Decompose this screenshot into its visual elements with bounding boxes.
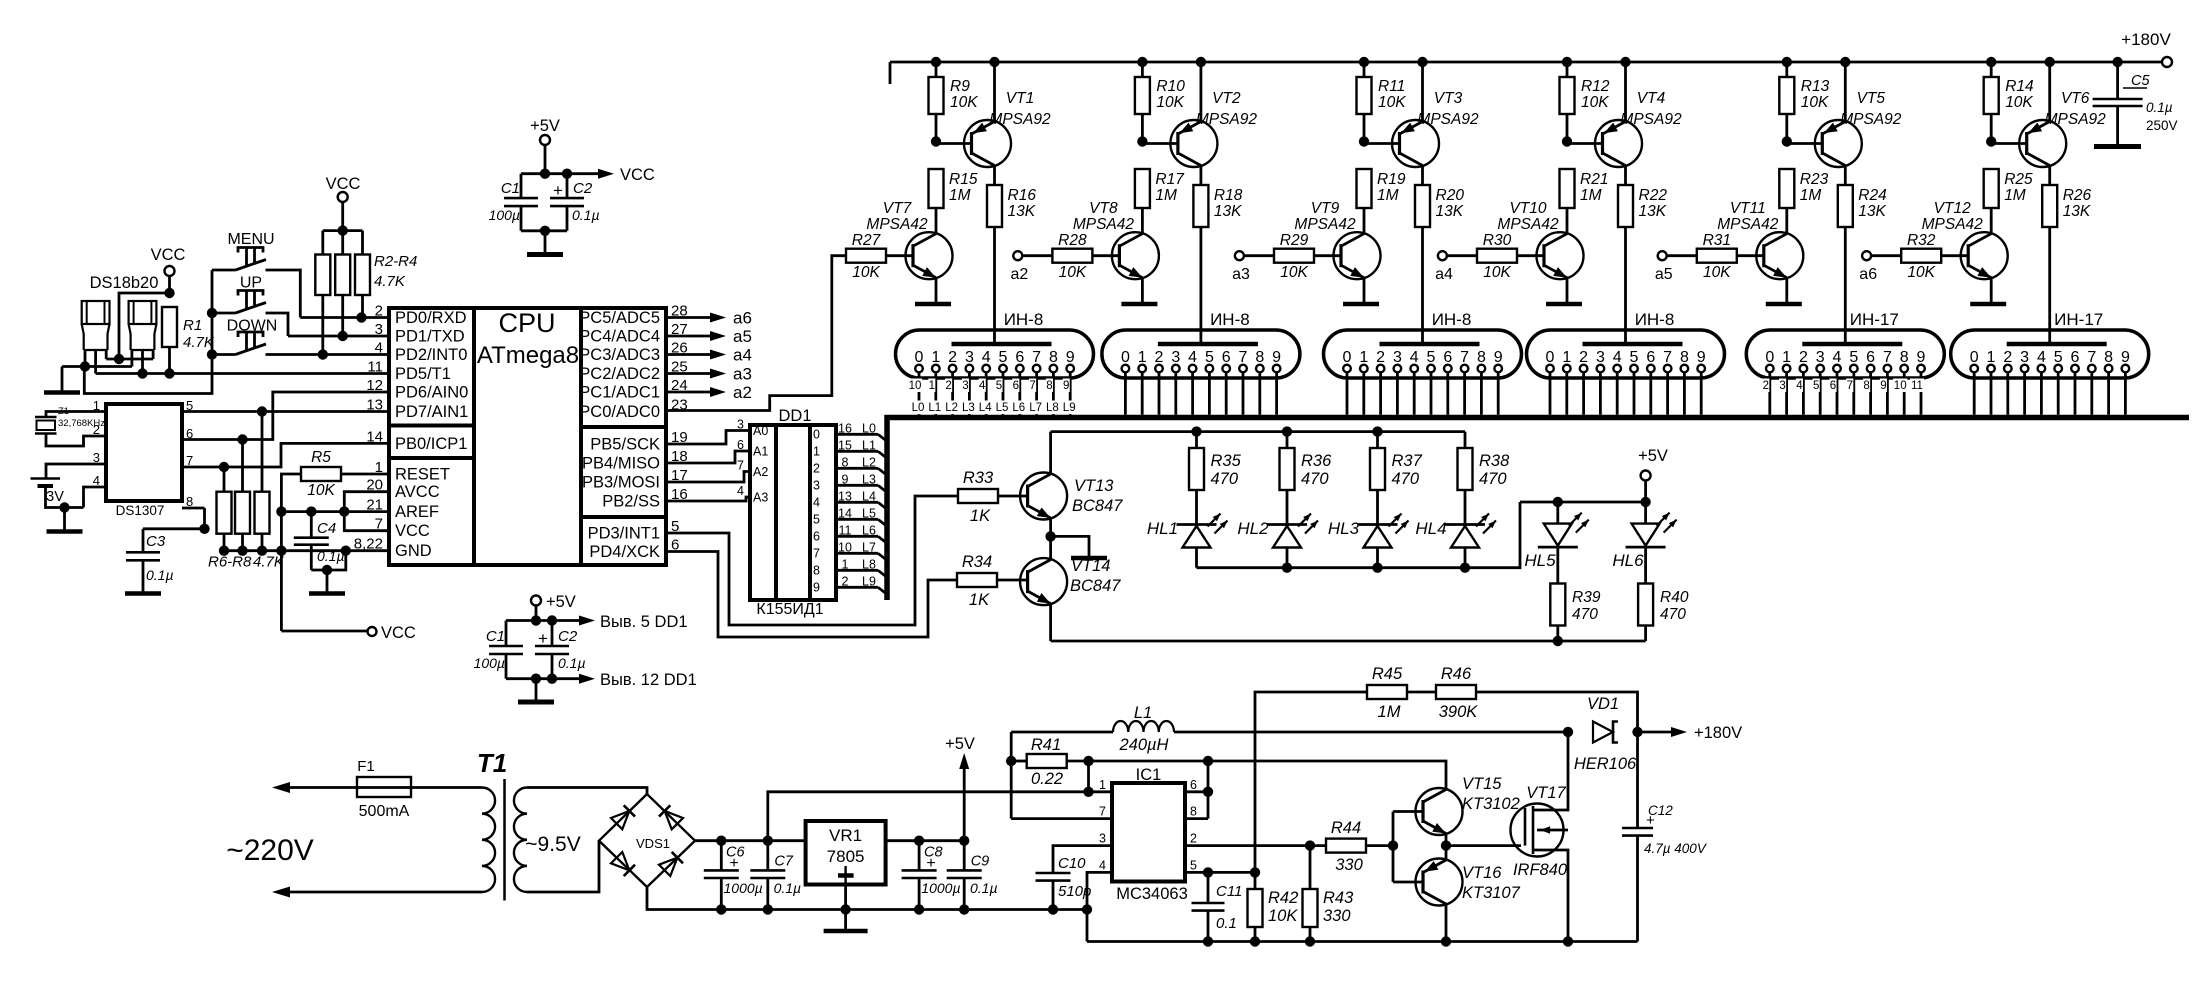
svg-text:ИН-8: ИН-8: [1210, 310, 1250, 329]
bus cathode wiring thick: [887, 418, 2189, 601]
svg-text:0.1: 0.1: [1216, 915, 1237, 932]
node feed R36: [1282, 426, 1292, 436]
svg-text:1M: 1M: [1800, 187, 1822, 204]
labels DS1307 pins: [93, 398, 193, 509]
svg-text:a6: a6: [1859, 266, 1877, 283]
svg-text:HL3: HL3: [1328, 519, 1360, 538]
wire PD1 row: [288, 331, 389, 341]
svg-text:R11: R11: [1378, 78, 1405, 95]
wire base rail VT15 VT16: [1388, 812, 1398, 883]
wire DS1307 pin6 to PD6: [182, 392, 389, 445]
svg-text:R44: R44: [1331, 819, 1361, 837]
svg-text:+: +: [1646, 812, 1655, 829]
svg-text:+: +: [729, 855, 738, 872]
wire VR1 gnd: [840, 885, 850, 930]
svg-text:1: 1: [929, 380, 935, 392]
svg-text:2: 2: [1155, 349, 1164, 366]
svg-text:A1: A1: [753, 445, 768, 459]
svg-text:CPU: CPU: [498, 308, 555, 338]
node base junction VT6: [1986, 136, 1996, 146]
resistor R44 330: [1326, 819, 1393, 874]
wire pin5 row: [1185, 867, 1260, 877]
ground C3: [125, 591, 161, 596]
svg-text:ИН-8: ИН-8: [1004, 310, 1044, 329]
svg-text:R20: R20: [1436, 187, 1465, 204]
svg-text:0: 0: [813, 427, 820, 441]
svg-text:L7: L7: [862, 540, 876, 554]
switch UP: [212, 275, 266, 314]
svg-text:VT4: VT4: [1637, 90, 1666, 107]
svg-text:ИН-17: ИН-17: [2054, 310, 2103, 329]
svg-text:VCC: VCC: [381, 624, 416, 642]
svg-text:0.1µ: 0.1µ: [146, 567, 174, 583]
wire base VT6: [1991, 142, 2027, 145]
svg-text:PC2/ADC2: PC2/ADC2: [579, 365, 660, 383]
svg-text:10K: 10K: [1059, 264, 1087, 281]
svg-text:A2: A2: [753, 465, 768, 479]
svg-text:7: 7: [2087, 349, 2096, 366]
svg-text:3: 3: [1393, 349, 1402, 366]
svg-text:5: 5: [1630, 349, 1639, 366]
wire PD3 to R33: [666, 496, 958, 625]
node VT13 emitter junction: [1045, 531, 1055, 541]
svg-text:4: 4: [1796, 380, 1803, 392]
svg-text:a6: a6: [733, 309, 752, 328]
svg-text:1M: 1M: [1377, 187, 1399, 204]
transformer T1: [477, 748, 581, 901]
svg-text:5: 5: [996, 380, 1002, 392]
svg-text:10K: 10K: [1703, 264, 1731, 281]
svg-text:5: 5: [813, 512, 820, 526]
svg-text:9: 9: [1066, 349, 1075, 366]
svg-text:PD4/XCK: PD4/XCK: [589, 543, 660, 561]
wire arrow Vyv12 DD1: [552, 671, 697, 689]
svg-text:5: 5: [999, 349, 1008, 366]
svg-text:MPSA92: MPSA92: [1196, 111, 1258, 128]
svg-text:1: 1: [1987, 349, 1996, 366]
svg-text:R29: R29: [1280, 232, 1309, 249]
svg-text:6: 6: [1013, 380, 1019, 392]
svg-text:10K: 10K: [950, 94, 978, 111]
svg-text:32,768KHz: 32,768KHz: [58, 418, 105, 429]
svg-text:R17: R17: [1155, 171, 1185, 188]
bridge rectifier VDS1: [599, 794, 695, 887]
svg-text:MPSA42: MPSA42: [1073, 216, 1135, 233]
wire output a2: [666, 383, 752, 402]
svg-text:1: 1: [1782, 349, 1791, 366]
resistor R36 470: [1280, 432, 1333, 525]
svg-text:DS1307: DS1307: [116, 503, 165, 518]
transistor VT17 IRF840: [1511, 732, 1569, 942]
svg-text:15: 15: [838, 438, 852, 452]
svg-text:KT3107: KT3107: [1462, 884, 1521, 902]
svg-text:3: 3: [1596, 349, 1605, 366]
terminal a2: [1011, 251, 1053, 283]
svg-text:9: 9: [1272, 349, 1281, 366]
ground upper +5V block: [527, 252, 563, 257]
svg-text:4: 4: [1833, 349, 1842, 366]
wire sensors GND line: [62, 361, 132, 391]
led HL5: [1524, 502, 1588, 584]
svg-text:KT3102: KT3102: [1462, 795, 1520, 813]
svg-text:3: 3: [2020, 349, 2029, 366]
wire buttons common to GND: [84, 270, 212, 394]
svg-text:13K: 13K: [1639, 203, 1667, 220]
svg-text:+5V: +5V: [945, 735, 975, 753]
node base junction VT4: [1562, 136, 1572, 146]
svg-text:PD5/T1: PD5/T1: [395, 365, 451, 383]
resistor R31 10K: [1697, 232, 1764, 281]
resistor R35 470: [1189, 432, 1242, 525]
resistor R23 1M: [1779, 169, 1828, 233]
svg-text:1M: 1M: [2004, 187, 2026, 204]
node base junction VT5: [1782, 136, 1792, 146]
labels IC1 pins: [1099, 778, 1197, 873]
svg-text:8: 8: [1046, 380, 1052, 392]
svg-text:К155ИД1: К155ИД1: [756, 601, 823, 618]
wire base VT5: [1787, 142, 1823, 145]
svg-text:7: 7: [1029, 380, 1035, 392]
svg-text:~220V: ~220V: [226, 834, 314, 867]
svg-text:4: 4: [979, 380, 986, 392]
battery 3V: [31, 479, 65, 506]
svg-text:1K: 1K: [970, 507, 991, 525]
svg-text:a5: a5: [1655, 266, 1673, 283]
svg-text:L2: L2: [945, 402, 958, 414]
svg-text:HL2: HL2: [1237, 519, 1269, 538]
ic DS1307 box: [106, 404, 182, 518]
svg-text:AVCC: AVCC: [395, 483, 440, 501]
svg-text:L1: L1: [862, 438, 876, 452]
svg-text:3: 3: [1099, 832, 1106, 846]
wire sensors VDD line: [106, 358, 153, 361]
wire L1 input vertical: [1006, 732, 1112, 819]
svg-text:6: 6: [1443, 349, 1452, 366]
svg-text:10K: 10K: [1280, 264, 1308, 281]
svg-text:6: 6: [1015, 349, 1024, 366]
svg-text:C2: C2: [558, 628, 578, 645]
svg-text:L0: L0: [862, 421, 876, 435]
svg-text:0: 0: [1343, 349, 1352, 366]
labels CPU right pins: [579, 303, 687, 562]
svg-text:PD2/INT0: PD2/INT0: [395, 346, 467, 364]
wire bottom ground rail: [1087, 936, 1638, 946]
svg-text:390K: 390K: [1439, 703, 1479, 721]
svg-text:C5: C5: [2131, 73, 2150, 89]
svg-text:1: 1: [1138, 349, 1147, 366]
resistor R39 470: [1550, 584, 1601, 642]
svg-text:C3: C3: [146, 533, 166, 550]
svg-text:VT16: VT16: [1462, 864, 1502, 882]
resistor R40 470: [1638, 584, 1689, 642]
resistor R4 4.7K: [355, 231, 370, 318]
svg-text:BC847: BC847: [1072, 497, 1123, 515]
svg-text:R18: R18: [1214, 187, 1243, 204]
svg-text:R32: R32: [1907, 232, 1936, 249]
svg-text:240µH: 240µH: [1119, 736, 1169, 754]
svg-text:1M: 1M: [1378, 703, 1401, 721]
svg-text:L6: L6: [1012, 402, 1025, 414]
svg-text:PC5/ADC5: PC5/ADC5: [579, 309, 660, 327]
svg-text:500mA: 500mA: [359, 803, 410, 820]
resistor R30 10K: [1477, 232, 1544, 281]
svg-text:100µ: 100µ: [474, 655, 505, 671]
svg-text:IC1: IC1: [1136, 766, 1162, 784]
terminal a4: [1435, 251, 1477, 283]
wire base VT3: [1364, 142, 1400, 145]
svg-text:PC0/ADC0: PC0/ADC0: [579, 403, 660, 421]
svg-text:0.22: 0.22: [1031, 770, 1063, 788]
svg-text:A3: A3: [753, 491, 768, 505]
svg-text:9: 9: [2121, 349, 2130, 366]
ic IC1 MC34063 box: [1112, 766, 1188, 903]
svg-text:PB5/SCK: PB5/SCK: [590, 436, 660, 454]
svg-text:MPSA42: MPSA42: [1294, 216, 1356, 233]
svg-text:L9: L9: [862, 574, 876, 588]
led HL6: [1612, 502, 1676, 584]
svg-text:MPSA42: MPSA42: [866, 216, 928, 233]
svg-text:PD3/INT1: PD3/INT1: [588, 525, 660, 543]
wire battery minus: [46, 486, 84, 530]
label DS18b20: [90, 274, 159, 292]
resistor R32 10K: [1901, 232, 1968, 281]
svg-text:1: 1: [931, 349, 940, 366]
transistor VT10 MPSA42: [1497, 200, 1583, 302]
svg-text:14: 14: [838, 506, 852, 520]
svg-text:VT13: VT13: [1074, 477, 1114, 495]
svg-text:3V: 3V: [46, 489, 64, 505]
svg-text:2: 2: [1579, 349, 1588, 366]
svg-text:L3: L3: [862, 472, 876, 486]
wire PB2 to A3: [666, 497, 750, 501]
svg-text:13K: 13K: [1436, 203, 1464, 220]
svg-text:a2: a2: [1011, 266, 1029, 283]
svg-text:VT15: VT15: [1462, 775, 1502, 793]
nixie tube ИН-8 #3: [1324, 310, 1522, 378]
svg-text:VT12: VT12: [1934, 200, 1971, 217]
svg-text:VT7: VT7: [883, 200, 913, 217]
transistor VT13 BC847: [1020, 432, 1123, 537]
svg-text:VT3: VT3: [1434, 90, 1463, 107]
svg-text:100µ: 100µ: [489, 207, 520, 223]
svg-text:7805: 7805: [827, 847, 865, 866]
svg-text:R5: R5: [311, 449, 331, 466]
svg-text:PB2/SS: PB2/SS: [602, 493, 660, 511]
svg-text:a4: a4: [1435, 266, 1453, 283]
svg-text:13: 13: [838, 489, 852, 503]
svg-text:ATmega8: ATmega8: [477, 342, 579, 369]
wire DS1307 pin5 to PD7: [182, 406, 389, 416]
svg-text:13K: 13K: [1858, 203, 1886, 220]
terminal +5V lower: [531, 593, 576, 621]
terminal VCC lower: [281, 624, 416, 642]
wire secondary top to bridge: [527, 788, 647, 795]
svg-text:8: 8: [1680, 349, 1689, 366]
node VCC junction R1: [164, 288, 174, 298]
wire R5 left vertical: [276, 474, 301, 631]
resistor R11 10K: [1357, 57, 1407, 141]
svg-text:6: 6: [2071, 349, 2080, 366]
wire DS1307 pin8 gnd: [182, 507, 205, 510]
node feed R37: [1372, 426, 1382, 436]
wire gate: [1446, 844, 1521, 847]
wire output a5: [666, 327, 752, 346]
ground VT13 emitter: [1051, 536, 1107, 558]
svg-text:PD1/TXD: PD1/TXD: [395, 328, 465, 346]
svg-text:L5: L5: [862, 506, 876, 520]
svg-text:ИН-8: ИН-8: [1635, 310, 1675, 329]
svg-text:a5: a5: [733, 327, 752, 346]
svg-text:10K: 10K: [1378, 94, 1406, 111]
transistor VT4 MPSA92: [1595, 57, 1682, 185]
node R41 right pin1 branch: [1083, 756, 1093, 797]
svg-text:R33: R33: [963, 469, 994, 487]
svg-text:3: 3: [813, 478, 820, 492]
wire DD1 output L8: [813, 557, 887, 577]
svg-text:3: 3: [962, 380, 968, 392]
wire PSU mid ground rail: [647, 887, 1092, 915]
svg-text:VR1: VR1: [829, 826, 862, 845]
svg-text:0: 0: [1765, 349, 1774, 366]
ground battery: [47, 529, 83, 534]
wire DD1 output L9: [813, 574, 887, 594]
svg-text:C1: C1: [501, 180, 520, 197]
svg-text:11: 11: [839, 523, 852, 537]
svg-text:250V: 250V: [2146, 118, 2178, 133]
svg-text:R40: R40: [1660, 589, 1689, 606]
transistor VT6 MPSA92: [2019, 57, 2106, 185]
wire DS1307 pin1 to crystal: [46, 412, 106, 418]
svg-text:13K: 13K: [1008, 203, 1036, 220]
svg-text:7: 7: [1239, 349, 1248, 366]
svg-text:10K: 10K: [307, 482, 335, 499]
capacitor C4 0.1u: [294, 512, 345, 570]
svg-text:C9: C9: [971, 854, 990, 870]
resistor R25 1M: [1984, 169, 2033, 233]
node C7 top: [763, 836, 773, 846]
wire arrow Vyv5 DD1: [552, 613, 688, 631]
switch DOWN: [212, 318, 277, 355]
led HL2: [1237, 514, 1318, 568]
resistor R3 4.7K: [335, 231, 350, 336]
svg-text:10K: 10K: [1581, 94, 1609, 111]
node +5V lower junction: [531, 615, 541, 625]
wire base VT2: [1142, 142, 1178, 145]
ground emitter VT11: [1766, 302, 1802, 307]
svg-text:10K: 10K: [1801, 94, 1829, 111]
svg-text:a3: a3: [733, 365, 752, 384]
wire pin2 row to R44: [1185, 844, 1326, 847]
svg-text:470: 470: [1660, 606, 1686, 623]
svg-text:9: 9: [813, 580, 820, 594]
svg-text:PB3/MOSI: PB3/MOSI: [582, 474, 660, 492]
svg-text:R43: R43: [1323, 889, 1354, 907]
svg-text:R14: R14: [2005, 78, 2034, 95]
wire AREF row: [281, 506, 389, 516]
svg-text:R30: R30: [1483, 232, 1512, 249]
terminal VCC above R1: [151, 246, 186, 293]
svg-text:C4: C4: [317, 520, 336, 537]
svg-text:1K: 1K: [969, 591, 990, 609]
wire GND row: [219, 546, 389, 556]
wire LED common bottom: [1197, 502, 1521, 573]
svg-text:L3: L3: [962, 402, 975, 414]
wire GND branch to C4 bottom: [311, 551, 346, 576]
transistor VT14 BC847: [1020, 536, 1121, 641]
svg-text:4: 4: [982, 349, 991, 366]
svg-text:VCC: VCC: [620, 166, 655, 184]
switch MENU: [212, 231, 275, 270]
resistor R46 390K: [1436, 665, 1638, 732]
svg-text:+: +: [926, 855, 935, 872]
svg-text:1M: 1M: [1580, 187, 1602, 204]
ground emitter VT12: [1970, 302, 2006, 307]
svg-text:0.1µ: 0.1µ: [317, 548, 345, 564]
ground emitter VT8: [1121, 302, 1157, 307]
svg-text:8: 8: [813, 563, 820, 577]
svg-text:9: 9: [1697, 349, 1706, 366]
svg-text:L8: L8: [1046, 402, 1059, 414]
svg-text:MPSA42: MPSA42: [1922, 216, 1984, 233]
svg-text:1: 1: [1562, 349, 1571, 366]
svg-text:R28: R28: [1058, 232, 1087, 249]
svg-text:0: 0: [1121, 349, 1130, 366]
wire C1 C2 bottom row upper: [521, 226, 567, 252]
ground lower +5V block: [518, 679, 554, 702]
terminal a3: [1232, 251, 1274, 283]
node feed R35: [1191, 426, 1201, 436]
svg-text:R39: R39: [1572, 589, 1601, 606]
svg-text:VT17: VT17: [1526, 784, 1566, 802]
wire mains bottom: [272, 887, 482, 898]
inductor L1 240uH: [1011, 704, 1568, 754]
svg-text:10: 10: [909, 380, 922, 392]
svg-text:VT10: VT10: [1509, 200, 1546, 217]
wire DS1307 pin4: [84, 487, 107, 508]
svg-text:2: 2: [2003, 349, 2012, 366]
svg-text:R23: R23: [1800, 171, 1829, 188]
svg-text:HL4: HL4: [1415, 519, 1446, 538]
svg-text:5: 5: [1190, 858, 1197, 872]
svg-text:8: 8: [1477, 349, 1486, 366]
node base junction VT3: [1359, 136, 1369, 146]
wire base VT4: [1567, 142, 1603, 145]
resistor R14 10K: [1984, 57, 2034, 141]
svg-text:PD7/AIN1: PD7/AIN1: [395, 403, 468, 421]
svg-text:MPSA92: MPSA92: [1840, 111, 1902, 128]
resistor R34 1K: [957, 553, 1028, 609]
capacitor C8 1000u: [902, 841, 961, 910]
wires tube #6 cathodes to bus: [1974, 372, 2125, 415]
svg-text:R41: R41: [1031, 736, 1061, 754]
wire DD1 output L0: [813, 421, 887, 441]
terminal a6: [1859, 251, 1901, 283]
svg-text:6: 6: [1646, 349, 1655, 366]
svg-text:a4: a4: [733, 346, 752, 365]
nixie tube ИН-8 #2: [1102, 310, 1300, 378]
svg-text:ИН-17: ИН-17: [1850, 310, 1899, 329]
svg-text:~9.5V: ~9.5V: [525, 833, 580, 856]
svg-text:A0: A0: [753, 424, 768, 438]
nixie tube ИН-17 #6: [1951, 310, 2149, 378]
svg-text:0: 0: [1546, 349, 1555, 366]
transistor VT1 MPSA92: [964, 57, 1051, 185]
svg-text:MPSA92: MPSA92: [1417, 111, 1479, 128]
svg-text:5: 5: [1427, 349, 1436, 366]
node pins 6 8 branch: [1185, 756, 1213, 819]
svg-text:9: 9: [1880, 380, 1886, 392]
svg-text:7: 7: [1663, 349, 1672, 366]
